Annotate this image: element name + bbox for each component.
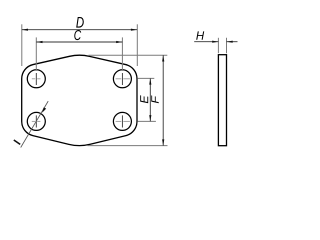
arrowhead F bottom [162,139,164,145]
extension line, C left (hole centerline) [35,37,37,71]
centerline horizontal dashes, hole bottom-left [32,120,35,122]
dimension line E [149,78,151,121]
leader arrowhead pointing at hole edge [42,107,46,112]
centerline horizontal dashes, hole top-left [32,78,35,80]
centerline vertical tick, hole bottom-right [121,115,123,127]
bolt hole bottom-left [27,112,45,130]
extension line, C right (hole centerline) [121,37,123,71]
bolt hole bottom-right [113,112,131,130]
arrowhead E bottom [149,115,151,121]
label E (rotated) [140,95,148,103]
arrowhead H left (pointing right) [212,41,218,43]
label C [74,30,81,40]
extension line, F bottom (plate lowest point) [88,145,168,147]
arrowhead F top [162,55,164,61]
plate outline (front view of flange plate) [22,55,137,145]
label H [196,31,204,39]
extension line, H left [217,38,219,53]
extension line, E bottom row [137,120,156,122]
bolt hole top-left [27,70,45,88]
arrowhead C right [116,41,122,43]
dimension line H left tail [194,41,218,43]
centerline horizontal dashes, hole top-right [116,78,122,80]
bolt hole top-right [113,70,131,88]
centerline vertical tick, hole top-right [121,73,123,85]
leader line at bottom-left hole [21,101,49,147]
extension line, E top row [138,77,155,79]
centerline horizontal dashes, hole bottom-right [116,120,122,122]
extension line, H right [226,38,228,53]
dimension line D [22,29,137,31]
extension line, F top (plate peak) [89,54,168,56]
arrowhead H right (pointing left) [227,41,233,43]
centerline vertical tick, hole top-left [35,73,37,85]
extension line, D right [136,24,138,66]
dimension line C [36,41,122,43]
label F (rotated) [151,95,158,103]
arrowhead C left [36,41,42,43]
leader end tick [14,140,20,144]
dimension line H right tail [227,41,238,43]
side view plate rectangle [218,55,226,146]
extension line, D left [21,24,23,66]
arrowhead E top [149,78,151,84]
arrowhead D left [22,29,28,31]
dimension line F [162,55,164,145]
centerline vertical tick, hole bottom-left [35,115,37,127]
arrowhead D right [131,29,137,31]
label D [76,17,84,28]
